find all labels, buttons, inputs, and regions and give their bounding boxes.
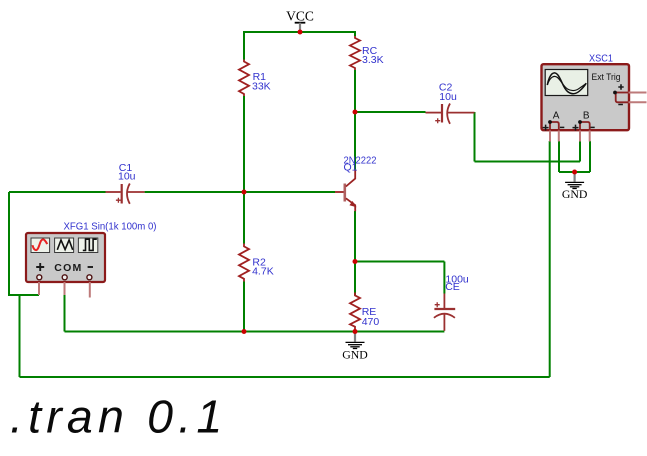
svg-text:3.3K: 3.3K [362,54,384,66]
svg-text:COM: COM [54,262,82,274]
svg-text:Ext Trig: Ext Trig [592,72,621,83]
svg-text:.tran 0.1: .tran 0.1 [10,391,227,443]
svg-text:XSC1: XSC1 [589,52,613,64]
svg-text:4.7K: 4.7K [252,266,274,278]
svg-text:GND: GND [562,187,588,201]
svg-text:GND: GND [342,347,368,361]
svg-text:CE: CE [445,281,460,293]
svg-text:33K: 33K [252,80,271,92]
svg-text:Q1: Q1 [344,161,358,173]
svg-text:B: B [583,111,590,122]
svg-text:10u: 10u [118,170,136,182]
svg-text:VCC: VCC [286,9,314,24]
svg-text:470: 470 [362,316,380,328]
svg-text:10u: 10u [439,91,457,103]
svg-text:A: A [553,111,560,122]
svg-text:XFG1 Sin(1k 100m 0): XFG1 Sin(1k 100m 0) [64,221,157,233]
